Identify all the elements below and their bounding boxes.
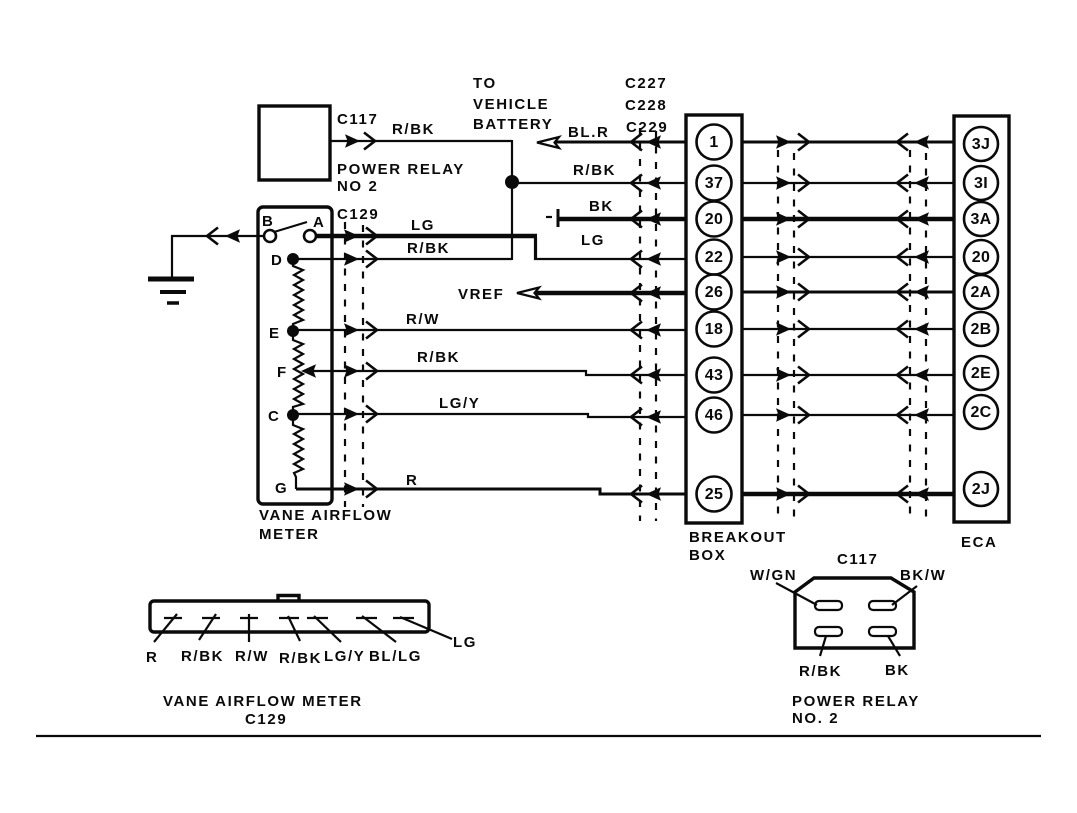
dashed connector lines C129	[344, 222, 346, 507]
svg-text:LG: LG	[411, 217, 435, 234]
pin E dot	[287, 325, 299, 337]
wire pin D	[293, 258, 512, 260]
C129 pin 7	[393, 617, 414, 619]
breakout pin 1	[697, 125, 732, 160]
svg-text:C228: C228	[625, 97, 667, 114]
ECA box	[954, 116, 1009, 522]
arrow filled E wire	[344, 323, 359, 337]
wire pin A LG heavy	[316, 234, 537, 238]
arrow filled G wire	[344, 482, 359, 496]
pin A circle	[304, 230, 316, 242]
svg-text:VANE AIRFLOW METER: VANE AIRFLOW METER	[163, 693, 363, 710]
svg-text:BATTERY: BATTERY	[473, 116, 553, 133]
dashed connector lines left of breakout	[639, 128, 641, 521]
wire row18 R/W from pin E	[297, 329, 686, 331]
svg-text:2C: 2C	[970, 404, 991, 421]
battery arrowhead open	[537, 137, 559, 148]
svg-text:26: 26	[705, 284, 723, 301]
svg-text:BK/W: BK/W	[900, 567, 946, 584]
breakout pin 20	[697, 202, 732, 237]
middle wire row1	[742, 141, 954, 144]
svg-text:LG: LG	[453, 634, 477, 651]
svg-text:18: 18	[705, 321, 723, 338]
arrow filled ground wire	[225, 229, 240, 243]
BK leader	[888, 636, 900, 656]
breakout pin 22	[697, 240, 732, 275]
svg-text:C117: C117	[337, 111, 378, 128]
chevron row25 right	[631, 486, 642, 503]
svg-text:B: B	[262, 213, 274, 230]
wire row26 VREF heavy	[536, 291, 686, 295]
dashed lines left of ECA	[909, 150, 911, 521]
C129 pin 2	[202, 617, 220, 619]
vane airflow meter box	[258, 207, 332, 504]
wire row20 BK heavy	[559, 217, 686, 221]
svg-text:ECA: ECA	[961, 534, 997, 551]
svg-text:BREAKOUT: BREAKOUT	[689, 529, 787, 546]
svg-text:F: F	[277, 364, 288, 381]
C129 pin 3	[240, 617, 258, 619]
svg-text:C117: C117	[837, 551, 878, 568]
svg-text:C: C	[268, 408, 280, 425]
arrow filled row25 right	[646, 487, 661, 501]
chevron row46 right	[631, 409, 642, 426]
wire row1 BL.R	[556, 141, 686, 144]
BK stub symbol	[546, 216, 552, 218]
resistor R2 E-C	[293, 336, 303, 410]
ECA pin 2C	[964, 395, 998, 429]
svg-text:R/W: R/W	[406, 311, 440, 328]
svg-text:R/W: R/W	[235, 648, 269, 665]
junction dot	[505, 175, 519, 189]
svg-text:20: 20	[705, 211, 723, 228]
breakout pin 37	[697, 166, 732, 201]
svg-text:C129: C129	[245, 711, 287, 728]
chevron C wire	[366, 406, 377, 423]
svg-text:1: 1	[709, 134, 718, 151]
svg-text:BL/LG: BL/LG	[369, 648, 422, 665]
svg-text:LG: LG	[581, 232, 605, 249]
middle wire row43	[742, 374, 954, 376]
svg-text:2J: 2J	[972, 481, 990, 498]
C117 slot top-left	[815, 601, 842, 610]
svg-text:LG/Y: LG/Y	[439, 395, 480, 412]
chevron relay output	[364, 133, 375, 150]
C129 pin 1	[164, 617, 182, 619]
wire row43 R/BK from pin F	[304, 371, 686, 375]
ECA pin 20	[964, 240, 998, 274]
ground wire from pin B	[172, 236, 264, 277]
breakout pin 43	[697, 358, 732, 393]
ECA pin 3A	[964, 202, 998, 236]
middle wire row37	[742, 182, 954, 184]
svg-text:NO 2: NO 2	[337, 178, 378, 195]
chevron row43 right	[631, 367, 642, 384]
svg-text:2B: 2B	[970, 321, 991, 338]
arrow filled row1	[646, 135, 661, 149]
ECA pin 3I	[964, 166, 998, 200]
chevron G wire	[366, 481, 377, 498]
chevron row1	[631, 134, 642, 151]
wiper arrow F	[301, 364, 316, 378]
C129 pin 4	[279, 617, 299, 619]
arrow filled C wire	[344, 407, 359, 421]
chevron row26	[631, 285, 642, 302]
C117 slot bottom-left	[815, 627, 842, 636]
svg-text:2E: 2E	[971, 365, 991, 382]
BK/W leader	[892, 586, 917, 605]
arrow filled row46 right	[646, 410, 661, 424]
chevron row18 right	[631, 322, 642, 339]
svg-text:A: A	[313, 214, 325, 231]
middle wire row22	[742, 256, 954, 258]
switch blade B-A	[274, 222, 307, 232]
svg-text:POWER RELAY: POWER RELAY	[792, 693, 920, 710]
chevron row22	[631, 251, 642, 268]
svg-text:2A: 2A	[970, 284, 991, 301]
svg-text:C129: C129	[337, 206, 379, 223]
arrow filled row22	[646, 252, 661, 266]
arrow filled F wire	[344, 364, 359, 378]
svg-text:R/BK: R/BK	[799, 663, 842, 680]
arrow filled row18 right	[646, 323, 661, 337]
svg-text:25: 25	[705, 486, 723, 503]
chevron row37	[631, 175, 642, 192]
pin B circle	[264, 230, 276, 242]
breakout pin 26	[697, 275, 732, 310]
separator line	[36, 735, 1041, 737]
svg-text:3I: 3I	[974, 175, 988, 192]
connector C129 tab	[278, 596, 299, 602]
arrow filled row26	[646, 286, 661, 300]
arrow filled D wire	[344, 252, 359, 266]
arrow filled row20	[646, 212, 661, 226]
ECA pin 3J	[964, 127, 998, 161]
ECA pin 2E	[964, 356, 998, 390]
svg-text:D: D	[271, 252, 283, 269]
svg-text:46: 46	[705, 407, 723, 424]
arrow filled row37	[646, 176, 661, 190]
VREF arrowhead open	[517, 288, 539, 299]
resistor R1 D-E	[293, 262, 303, 327]
svg-text:3A: 3A	[970, 211, 991, 228]
svg-text:BL.R: BL.R	[568, 124, 609, 141]
arrow filled A wire	[344, 229, 359, 243]
svg-text:BK: BK	[589, 198, 614, 215]
arrow filled relay output	[345, 134, 360, 148]
C117 slot bottom-right	[869, 627, 896, 636]
svg-text:W/GN: W/GN	[750, 567, 797, 584]
svg-text:METER: METER	[259, 526, 320, 543]
svg-text:R/BK: R/BK	[417, 349, 460, 366]
breakout pin 18	[697, 312, 732, 347]
connector C129 body	[150, 601, 429, 632]
svg-text:R: R	[406, 472, 418, 489]
middle wire row18	[742, 328, 954, 330]
chevron F wire	[366, 363, 377, 380]
svg-text:VEHICLE: VEHICLE	[473, 96, 549, 113]
C129 pin 5	[307, 617, 328, 619]
ground symbol	[148, 277, 194, 282]
svg-text:LG/Y: LG/Y	[324, 648, 365, 665]
svg-text:G: G	[275, 480, 288, 497]
wire row25 R from pin G	[296, 489, 686, 494]
ECA pin 2J	[964, 472, 998, 506]
svg-text:BK: BK	[885, 662, 910, 679]
svg-text:VANE AIRFLOW: VANE AIRFLOW	[259, 507, 392, 524]
power relay box	[259, 106, 330, 180]
wire down from relay to node	[511, 140, 513, 260]
ECA pin 2A	[964, 275, 998, 309]
W/GN leader	[776, 583, 817, 605]
connector C117 body	[795, 578, 914, 648]
chevron ground wire	[207, 228, 218, 245]
middle wire row46	[742, 414, 954, 416]
middle wire row26	[742, 291, 954, 294]
svg-text:R/BK: R/BK	[279, 650, 322, 667]
chevron row20	[631, 211, 642, 228]
breakout box	[686, 115, 742, 523]
chevron E wire	[366, 322, 377, 339]
svg-text:37: 37	[705, 175, 723, 192]
chevron D wire	[366, 251, 377, 268]
svg-text:R/BK: R/BK	[573, 162, 616, 179]
svg-text:22: 22	[705, 249, 723, 266]
svg-text:R: R	[146, 649, 158, 666]
C129 pin 6	[356, 617, 377, 619]
svg-text:C227: C227	[625, 75, 667, 92]
pin C dot	[287, 409, 299, 421]
wire row46 LG/Y from pin C	[297, 414, 686, 417]
svg-text:BOX: BOX	[689, 547, 726, 564]
svg-text:E: E	[269, 325, 281, 342]
middle wire row25	[742, 492, 954, 496]
middle wire row20	[742, 217, 954, 221]
svg-text:VREF: VREF	[458, 286, 504, 303]
R/BK leader	[820, 636, 826, 656]
chevron A wire	[366, 228, 377, 245]
arrow filled row43 right	[646, 368, 661, 382]
svg-text:POWER RELAY: POWER RELAY	[337, 161, 465, 178]
svg-text:43: 43	[705, 367, 723, 384]
svg-text:R/BK: R/BK	[407, 240, 450, 257]
svg-text:R/BK: R/BK	[181, 648, 224, 665]
wire relay output	[330, 140, 512, 142]
wire row22 LG jog	[535, 237, 686, 259]
breakout pin 46	[697, 398, 732, 433]
svg-text:NO. 2: NO. 2	[792, 710, 839, 727]
wire row37 R/BK	[512, 182, 686, 184]
svg-text:C229: C229	[626, 119, 668, 136]
ECA pin 2B	[964, 312, 998, 346]
svg-text:TO: TO	[473, 75, 497, 92]
resistor R3 C-G	[293, 420, 303, 489]
dashed lines right of breakout	[777, 150, 779, 521]
pin D dot	[287, 253, 299, 265]
breakout pin 25	[697, 477, 732, 512]
svg-text:R/BK: R/BK	[392, 121, 435, 138]
svg-text:3J: 3J	[972, 136, 990, 153]
svg-text:20: 20	[972, 249, 990, 266]
C117 slot top-right	[869, 601, 896, 610]
